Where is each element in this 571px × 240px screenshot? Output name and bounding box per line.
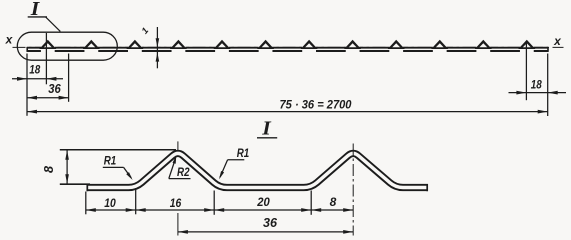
extension line at second rise start (20/8) bbox=[310, 191, 312, 215]
svg-text:16: 16 bbox=[170, 196, 182, 210]
svg-text:x: x bbox=[5, 33, 14, 47]
dimension 8 (profile height) bbox=[42, 150, 69, 184]
extension line at sheet right end bbox=[547, 54, 549, 117]
svg-text:R1: R1 bbox=[104, 154, 117, 168]
svg-text:18: 18 bbox=[531, 78, 542, 92]
svg-text:10: 10 bbox=[104, 196, 116, 210]
radius label R2 (crest inner radius) bbox=[169, 155, 191, 179]
extension line at sheet left end bbox=[26, 54, 28, 116]
dimension 20 bbox=[214, 195, 311, 212]
dimension line carrying 10,16,20,8 bbox=[86, 209, 353, 211]
centerline axis x-x bbox=[13, 46, 564, 48]
svg-text:20: 20 bbox=[256, 195, 270, 209]
svg-text:8: 8 bbox=[42, 166, 56, 173]
dimension 10 bbox=[86, 196, 136, 212]
svg-text:R1: R1 bbox=[237, 146, 250, 160]
radius label R1 (left bend) bbox=[103, 154, 133, 180]
detail label I (top view callout) bbox=[28, 0, 61, 31]
svg-text:18: 18 bbox=[29, 63, 40, 77]
centerline tick at first crest bbox=[177, 141, 179, 151]
extension line at first peak apex bbox=[45, 33, 47, 84]
dimension 16 bbox=[136, 196, 215, 212]
extension line at detail sheet left end bbox=[85, 192, 87, 215]
extension line at rise start (10/16) bbox=[135, 188, 137, 214]
dimension 75·36 = 2700 (overall length) bbox=[27, 97, 548, 113]
svg-text:75 · 36 = 2700: 75 · 36 = 2700 bbox=[280, 97, 352, 111]
dimension 36 (left) bbox=[27, 82, 69, 100]
svg-text:8: 8 bbox=[330, 195, 337, 209]
sheet profile (detail view) bbox=[87, 153, 429, 191]
radius label R1 (right bend) bbox=[219, 146, 250, 179]
svg-text:36: 36 bbox=[263, 215, 278, 230]
extension line at fall end (16/20) bbox=[213, 191, 215, 215]
svg-text:R2: R2 bbox=[177, 165, 190, 179]
centerline of second crest bbox=[352, 144, 354, 236]
extension of first crest centerline to 36 dim bbox=[177, 213, 179, 236]
extension line at one pitch from left end bbox=[68, 54, 70, 102]
svg-text:x: x bbox=[553, 34, 562, 48]
sheet profile (top view) bbox=[27, 40, 548, 52]
extension line at flat top level bbox=[60, 183, 90, 185]
detail view title I bbox=[257, 118, 277, 139]
svg-text:I: I bbox=[261, 118, 272, 139]
dimension 1 (sheet thickness) bbox=[139, 26, 159, 69]
detail callout oval around first peaks bbox=[17, 32, 117, 60]
extension line at last peak apex bbox=[525, 42, 527, 100]
dimension 8 (flank offset) bbox=[311, 195, 353, 212]
dimension 18 (right) bbox=[509, 78, 567, 95]
extension line at crest top level bbox=[60, 149, 176, 151]
svg-text:36: 36 bbox=[48, 82, 61, 96]
dimension 36 (detail, crest to crest) bbox=[178, 215, 353, 234]
dimension 18 (left) bbox=[12, 63, 63, 81]
